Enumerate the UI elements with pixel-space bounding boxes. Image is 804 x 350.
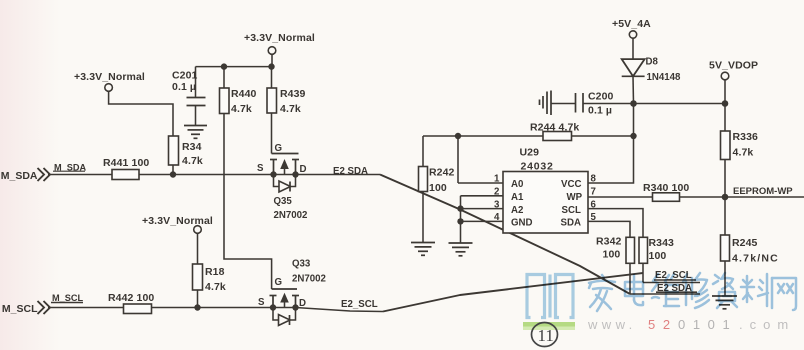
watermark char zi	[713, 273, 737, 308]
svg-text:Q33: Q33	[292, 259, 311, 270]
ground under R242	[411, 243, 435, 256]
svg-text:SCL: SCL	[562, 205, 581, 216]
svg-text:G: G	[275, 143, 283, 154]
svg-text:4.7k: 4.7k	[205, 281, 226, 293]
svg-text:A0: A0	[511, 179, 523, 190]
power +5V_4A	[612, 18, 651, 59]
node junction rail/R440	[221, 63, 227, 69]
watermark char jia	[589, 275, 615, 311]
wire M_SDA main line	[48, 174, 380, 176]
svg-text:R336: R336	[733, 131, 759, 143]
svg-text:52: 52	[648, 317, 678, 332]
svg-text:D8: D8	[646, 57, 659, 68]
svg-text:WP: WP	[567, 192, 583, 203]
watermark char wang	[772, 278, 796, 310]
resistor R343	[639, 237, 674, 283]
svg-text:100: 100	[429, 182, 447, 194]
wire D8 node down to rail	[633, 104, 635, 137]
resistor R340	[643, 182, 725, 201]
svg-text:GND: GND	[511, 218, 533, 229]
pin 6 stub SCL	[588, 199, 643, 237]
resistor R442	[108, 292, 154, 314]
svg-text:100: 100	[649, 250, 667, 262]
resistor R18	[193, 264, 226, 308]
svg-text:4.7k: 4.7k	[182, 155, 203, 167]
svg-text:24032: 24032	[521, 161, 554, 173]
power +3.3V_Normal (top)	[196, 32, 315, 67]
pin 2 stub A1	[461, 187, 504, 198]
resistor R244	[530, 122, 634, 141]
svg-text:R244 4.7k: R244 4.7k	[530, 122, 579, 134]
svg-text:A2: A2	[511, 205, 523, 216]
svg-text:Q35: Q35	[274, 196, 293, 207]
svg-text:M_SDA: M_SDA	[1, 170, 38, 182]
resistor R245	[721, 197, 779, 296]
svg-text:R343: R343	[649, 237, 675, 249]
transistor Q33 2N7002	[258, 259, 326, 326]
svg-text:G: G	[275, 277, 283, 288]
power +3.3V_Normal (left)	[74, 71, 173, 136]
wire M_SCL main line	[48, 308, 383, 312]
ground under C201	[184, 126, 207, 139]
pin 5 stub SDA	[588, 212, 630, 237]
pin 1 stub A0	[458, 136, 503, 185]
svg-text:+3.3V_Normal: +3.3V_Normal	[142, 215, 213, 227]
wire R440 bottom to Q33 gate	[224, 114, 272, 290]
node junction pin4	[457, 218, 463, 224]
svg-text:R342: R342	[596, 236, 622, 248]
watermark char wei	[652, 274, 679, 306]
watermark url row	[587, 317, 795, 332]
capacitor C201	[172, 67, 206, 125]
svg-text:0.1 µ: 0.1 µ	[588, 105, 612, 117]
svg-text:4.7k: 4.7k	[733, 147, 754, 159]
ground under R245	[712, 296, 737, 309]
svg-text:5V_VDOP: 5V_VDOP	[709, 60, 758, 72]
node junction pin3	[457, 205, 463, 211]
node junction rail/R439	[268, 63, 274, 69]
transistor Q35 2N7002	[257, 143, 307, 221]
svg-text:4.7k: 4.7k	[231, 103, 252, 115]
resistor R336	[721, 131, 759, 197]
svg-text:0.1 µ: 0.1 µ	[172, 81, 196, 93]
svg-text:E2 SDA: E2 SDA	[333, 166, 368, 177]
node junction R244/VCC column	[630, 133, 636, 139]
wire E2_SCL right segment	[643, 282, 700, 284]
svg-text:7: 7	[591, 187, 596, 198]
svg-text:S: S	[257, 163, 264, 174]
wire VCC rail y136	[423, 135, 543, 137]
svg-text:100: 100	[603, 249, 621, 261]
svg-text:+3.3V_Normal: +3.3V_Normal	[74, 71, 145, 83]
svg-text:R340 100: R340 100	[643, 182, 689, 194]
watermark char xiu	[683, 273, 709, 308]
sideways ground left of C200	[540, 91, 552, 116]
node junction 5V_VDOP	[722, 100, 729, 107]
svg-text:R441 100: R441 100	[103, 157, 149, 169]
resistor R34	[169, 136, 203, 175]
svg-text:E2_SCL: E2_SCL	[341, 299, 378, 310]
svg-text:R34: R34	[182, 141, 202, 153]
pin 8 stub VCC	[588, 136, 634, 185]
wire D8 node to 5V_VDOP node	[634, 103, 726, 105]
resistor R441	[103, 157, 149, 180]
wire E2_SDA right segment	[630, 293, 700, 295]
resistor R342	[596, 236, 635, 295]
svg-text:M_SCL: M_SCL	[52, 293, 84, 303]
diode D8 1N4148	[622, 57, 681, 104]
svg-text:M_SCL: M_SCL	[2, 303, 38, 315]
svg-text:C201: C201	[172, 70, 198, 82]
wire pins 2-4 to ground	[460, 196, 462, 243]
capacitor C200	[551, 91, 634, 117]
svg-text:R18: R18	[205, 266, 225, 278]
node junction D8/C200	[630, 100, 637, 107]
wire diagonal E2_SDA to R342 bottom	[380, 175, 630, 295]
watermark green bar	[523, 322, 575, 330]
svg-text:D: D	[300, 164, 307, 175]
page number 11 circled	[532, 323, 558, 347]
pin 3 stub A2	[461, 199, 504, 210]
watermark book icon	[527, 275, 573, 318]
power +3.3V_Normal (middle)	[142, 215, 213, 264]
resistor R242	[419, 136, 455, 243]
svg-text:C200: C200	[588, 91, 614, 103]
svg-text:R242: R242	[429, 167, 455, 179]
watermark char dian	[625, 275, 643, 305]
svg-text:+3.3V_Normal: +3.3V_Normal	[244, 32, 315, 44]
pin 7 stub WP	[588, 187, 653, 198]
node junction pin1 vertical	[455, 133, 461, 139]
svg-text:VCC: VCC	[561, 179, 581, 190]
svg-text:2N7002: 2N7002	[292, 274, 326, 285]
pin 4 stub GND	[461, 212, 504, 223]
power 5V_VDOP	[709, 60, 758, 132]
node junction R34/M_SDA	[170, 171, 176, 177]
svg-text:2N7002: 2N7002	[274, 210, 308, 221]
svg-text:SDA: SDA	[561, 218, 581, 229]
svg-text:11: 11	[538, 326, 554, 345]
svg-text:S: S	[258, 297, 265, 308]
svg-text:A1: A1	[511, 192, 524, 203]
svg-text:R440: R440	[231, 88, 257, 100]
wire EEPROM-WP to right edge	[725, 196, 804, 198]
svg-text:EEPROM-WP: EEPROM-WP	[733, 186, 793, 197]
svg-text:R442 100: R442 100	[108, 292, 154, 304]
svg-text:4.7k: 4.7k	[280, 103, 301, 115]
port M_SDA	[1, 163, 87, 183]
svg-text:www.: www.	[587, 317, 637, 332]
svg-text:U29: U29	[520, 147, 540, 159]
wire diagonal E2_SCL to R343	[383, 273, 643, 312]
port M_SCL	[2, 293, 84, 315]
watermark char liao	[741, 274, 768, 306]
IC U29 24032	[503, 147, 588, 234]
svg-text:R439: R439	[280, 88, 306, 100]
svg-text:R245: R245	[732, 237, 758, 249]
svg-text:.com: .com	[739, 317, 795, 332]
resistor R439	[267, 67, 306, 115]
svg-text:1N4148: 1N4148	[647, 72, 682, 83]
svg-text:+5V_4A: +5V_4A	[612, 18, 651, 30]
ground under pins	[449, 243, 473, 256]
node junction R18/M_SCL	[194, 304, 200, 310]
svg-text:4.7k/NC: 4.7k/NC	[732, 253, 779, 265]
svg-text:D: D	[299, 298, 306, 309]
wire R439 bottom to Q35 gate	[271, 113, 273, 154]
node junction EEPROM-WP	[722, 194, 729, 201]
resistor R440	[220, 67, 257, 115]
svg-text:0101: 0101	[678, 317, 737, 332]
